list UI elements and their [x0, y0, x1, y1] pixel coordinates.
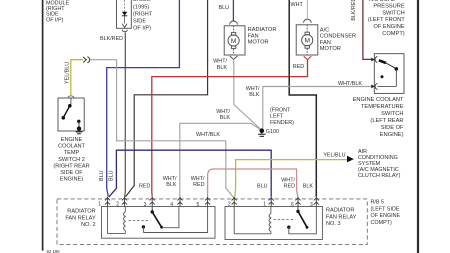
wire BLU horizontal: [106, 67, 180, 69]
svg-text:RADIATOR: RADIATOR: [248, 27, 277, 33]
radiator fan motor bottom connector: [230, 56, 238, 59]
label WHT/BLK (switch ground wire): [246, 86, 260, 98]
svg-text:AIR: AIR: [358, 149, 367, 155]
svg-text:CONDENSER: CONDENSER: [320, 34, 356, 40]
wire RED from A/C motor to relay2 pin 3: [152, 60, 308, 197]
svg-text:WHT/: WHT/: [246, 86, 260, 92]
svg-text:R/B 5: R/B 5: [371, 200, 384, 206]
svg-text:RADIATOR: RADIATOR: [326, 208, 354, 214]
label (FRONT LEFT FENDER): [270, 108, 294, 126]
svg-text:5: 5: [197, 202, 200, 208]
engine coolant temperature switch S2 box: [374, 54, 404, 94]
svg-text:YEL/BLU: YEL/BLU: [323, 153, 345, 159]
radiator fan motor connector: [230, 21, 238, 25]
engine coolant temperature switch label: [353, 97, 404, 138]
svg-text:CLUTCH RELAY): CLUTCH RELAY): [358, 173, 401, 179]
svg-text:BLK: BLK: [303, 184, 314, 190]
svg-text:OF ENGINE: OF ENGINE: [373, 24, 404, 30]
svg-text:2: 2: [116, 202, 119, 208]
switch terminal 1 connector: [371, 58, 375, 62]
svg-text:NO. 3: NO. 3: [326, 221, 341, 227]
diode symbol: [122, 12, 127, 16]
svg-text:COMPT): COMPT): [382, 31, 405, 37]
svg-text:BLK: BLK: [220, 115, 231, 121]
wire BLU relay2 pin1 to relay3 pin1: [116, 150, 271, 197]
wire BLK from top to relay3 pin 3: [289, 0, 316, 197]
wire WHT/BLK from connector to relay3 pin 2: [90, 60, 234, 198]
svg-text:WHT/: WHT/: [163, 176, 177, 182]
pressure switch label: [368, 0, 405, 37]
wire WHT: [306, 0, 308, 20]
switch2 ground marks: [76, 131, 83, 133]
A/C condenser fan motor label: [320, 27, 356, 52]
relay2 pin numbers: [98, 201, 199, 208]
inline connector (yel/gray): [83, 57, 86, 63]
svg-text:M: M: [231, 38, 237, 45]
svg-text:SWITCH: SWITCH: [381, 111, 403, 117]
R/B 5 label: [371, 200, 401, 226]
svg-text:OF I/P): OF I/P): [46, 17, 64, 23]
relay2 linkage dashed: [129, 219, 151, 221]
labels above relay2 pins: [163, 176, 205, 188]
svg-text:(1995): (1995): [133, 4, 149, 10]
svg-text:BLU: BLU: [219, 5, 230, 11]
svg-text:FENDER): FENDER): [270, 120, 294, 126]
svg-text:92 195: 92 195: [47, 249, 61, 253]
svg-text:COOLANT: COOLANT: [58, 144, 86, 150]
svg-text:MOTOR: MOTOR: [248, 40, 269, 46]
air conditioning system label: [358, 149, 401, 179]
switch pole dot: [381, 75, 384, 78]
svg-text:BLK: BLK: [166, 182, 177, 188]
svg-text:(LEFT REAR: (LEFT REAR: [370, 118, 403, 124]
svg-text:WHT/: WHT/: [216, 109, 230, 115]
svg-text:BLU: BLU: [109, 170, 115, 181]
svg-text:TEMP: TEMP: [64, 150, 80, 156]
A/C motor bottom connector (red): [304, 56, 312, 59]
label WHT/BLK (rad fan motor ground wire): [213, 59, 227, 71]
svg-text:FAN RELAY: FAN RELAY: [65, 215, 96, 221]
relay2 switch: [151, 207, 153, 211]
svg-text:OF I/P): OF I/P): [133, 26, 151, 32]
switch2 internals: [70, 98, 72, 105]
relay3 linkage dashed: [274, 219, 295, 221]
svg-text:ENGINE): ENGINE): [60, 177, 83, 183]
A/C condenser fan motor connector: [304, 19, 312, 23]
svg-text:BLU: BLU: [257, 183, 268, 189]
wire WHT/BLK rad motor to ground: [234, 60, 261, 130]
svg-text:RED: RED: [139, 184, 150, 190]
svg-text:3: 3: [144, 202, 147, 208]
svg-text:BLK/RED: BLK/RED: [351, 0, 357, 21]
svg-text:(FRONT: (FRONT: [270, 108, 291, 114]
engine coolant temp switch 2 label: [53, 137, 89, 183]
switch terminal 2 connector: [371, 85, 375, 89]
diode pin dashed line: [124, 0, 126, 12]
svg-text:TEMPERATURE: TEMPERATURE: [361, 104, 404, 110]
diode label: [133, 0, 153, 32]
radiator fan relay no.3 inner box: [225, 207, 322, 240]
svg-text:A/C DUAL: A/C DUAL: [369, 0, 395, 3]
diode D (1995) box: [117, 0, 132, 28]
A/C condenser fan motor U2: [296, 25, 318, 55]
svg-text:G100: G100: [266, 129, 279, 135]
svg-text:BLK/RED: BLK/RED: [100, 36, 123, 42]
svg-text:BLK: BLK: [249, 92, 260, 98]
big dashed R/B box: [57, 199, 367, 245]
svg-text:A/C: A/C: [320, 27, 329, 33]
wire WHT/BLK from relay2 pin 4 to ground: [180, 123, 261, 197]
ground G100: [260, 128, 265, 133]
wire YEL/BLU from relay3 pin2 to A/C system: [235, 160, 347, 198]
svg-text:3: 3: [310, 202, 313, 208]
svg-text:WHT/: WHT/: [191, 176, 205, 182]
module label: [46, 0, 69, 23]
svg-text:WHT: WHT: [291, 2, 304, 8]
label WHT/BLK (pin4 wire upper): [216, 109, 230, 121]
svg-text:FAN: FAN: [248, 33, 259, 39]
wire BLU feed from top: [178, 0, 180, 68]
svg-text:RED: RED: [193, 182, 204, 188]
wire BLU to radiator fan motor: [232, 0, 234, 22]
svg-text:ENGINE): ENGINE): [380, 132, 404, 138]
svg-text:2: 2: [228, 202, 231, 208]
svg-text:SYSTEM: SYSTEM: [358, 161, 381, 167]
svg-text:6: 6: [291, 202, 294, 208]
svg-text:YEL/BLU: YEL/BLU: [64, 62, 70, 84]
relay3 internals: coil: [233, 207, 235, 234]
svg-text:BLK: BLK: [217, 65, 228, 71]
right-side component box edge: [417, 0, 419, 253]
relay2 bottom rail to pin5: [143, 207, 207, 233]
engine coolant temp switch 2 box: [58, 98, 84, 131]
svg-text:SIDE: SIDE: [133, 19, 146, 25]
diode box bottom connector arrow: [122, 24, 127, 28]
svg-text:COMPT): COMPT): [371, 220, 392, 226]
svg-text:(RIGHT REAR: (RIGHT REAR: [53, 163, 89, 169]
svg-text:OF ENGINE: OF ENGINE: [371, 213, 401, 219]
svg-text:ENGINE COOLANT: ENGINE COOLANT: [353, 97, 404, 103]
relay pin connectors (relay2 pins 1-5, relay3 pins 2,1,6,3): [105, 197, 319, 207]
svg-text:WHT/: WHT/: [213, 59, 227, 65]
svg-text:(RIGHT: (RIGHT: [133, 11, 153, 17]
svg-text:4: 4: [170, 202, 173, 208]
switch blade (thick): [379, 60, 386, 63]
svg-text:BLU: BLU: [99, 170, 105, 181]
svg-text:RED: RED: [284, 184, 295, 190]
wire WHT/RED relay2 pin5 to relay3 pin6: [208, 169, 298, 197]
svg-text:WHT/BLK: WHT/BLK: [196, 132, 220, 138]
svg-text:(LEFT SIDE: (LEFT SIDE: [371, 206, 400, 212]
module (right side of I/P) box edge: [42, 0, 44, 251]
relay3 switch: [297, 207, 299, 211]
switch internal wire: [395, 69, 397, 87]
wire BLU down to relay2 pin 1: [107, 68, 109, 197]
svg-text:MOTOR: MOTOR: [320, 46, 341, 52]
svg-text:RADIATOR: RADIATOR: [67, 209, 95, 215]
relay 3 label: [326, 208, 357, 228]
svg-text:LEFT: LEFT: [270, 114, 284, 120]
wire BLK/RED right from top to coolant temp switch: [363, 0, 371, 59]
svg-text:SIDE OF: SIDE OF: [60, 170, 83, 176]
svg-text:1: 1: [263, 202, 266, 208]
wire WHT/BLK from coolant switch to ground G100: [263, 87, 371, 129]
svg-text:1: 1: [98, 201, 101, 207]
wire BLK/RED 2 from top (to relay2 pin 2): [126, 0, 208, 197]
relay3 pin numbers: [228, 202, 313, 208]
svg-text:SIDE OF: SIDE OF: [381, 125, 404, 131]
wire BLK/RED from diode down to relay2 pin 2: [124, 33, 127, 197]
engine coolant temp switch 2 connector: [68, 96, 74, 98]
radiator fan relay no.2 inner box: [102, 207, 216, 239]
svg-text:NO. 2: NO. 2: [81, 222, 96, 228]
relay2 internals: coil: [107, 207, 109, 234]
svg-text:SWITCH 2: SWITCH 2: [58, 157, 85, 163]
radiator fan motor U1: [224, 26, 245, 55]
relay 2 label: [65, 209, 96, 229]
svg-text:M: M: [304, 38, 310, 45]
radiator fan motor label: [248, 27, 277, 46]
svg-text:ENGINE: ENGINE: [61, 137, 83, 143]
svg-text:RED: RED: [293, 64, 304, 70]
svg-text:WHT/: WHT/: [281, 177, 295, 183]
arrow to A/C system: [347, 156, 354, 163]
wire YEL/BLU from switch2 up and right to connector: [71, 60, 83, 95]
svg-text:FAN RELAY: FAN RELAY: [326, 214, 357, 220]
svg-text:PRESSURE: PRESSURE: [373, 4, 404, 10]
svg-text:DIODE: DIODE: [133, 0, 151, 3]
svg-text:FAN: FAN: [320, 40, 331, 46]
svg-text:SWITCH: SWITCH: [382, 10, 404, 16]
svg-text:(LEFT FRONT: (LEFT FRONT: [368, 17, 405, 23]
